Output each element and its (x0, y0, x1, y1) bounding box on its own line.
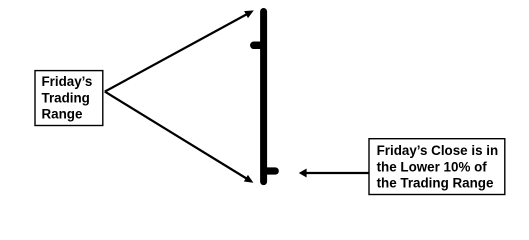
price bar: Friday's trading range (260, 12, 267, 182)
svg-text:Friday’s: Friday’s (42, 74, 93, 89)
callout box: Friday's Trading Range (35, 71, 103, 126)
svg-text:Friday’s Close is in: Friday’s Close is in (377, 143, 499, 158)
svg-text:the Lower 10% of: the Lower 10% of (377, 159, 488, 174)
svg-text:the Trading Range: the Trading Range (377, 176, 494, 191)
open tick (254, 42, 262, 50)
svg-text:Range: Range (42, 107, 83, 122)
arrow to Friday's low (105, 92, 254, 183)
arrow to Friday's high (105, 10, 254, 91)
callout box: Friday's Close (369, 139, 505, 195)
close tick (265, 167, 275, 174)
svg-text:Trading: Trading (42, 90, 90, 105)
arrow from close callout to close tick (299, 169, 369, 178)
